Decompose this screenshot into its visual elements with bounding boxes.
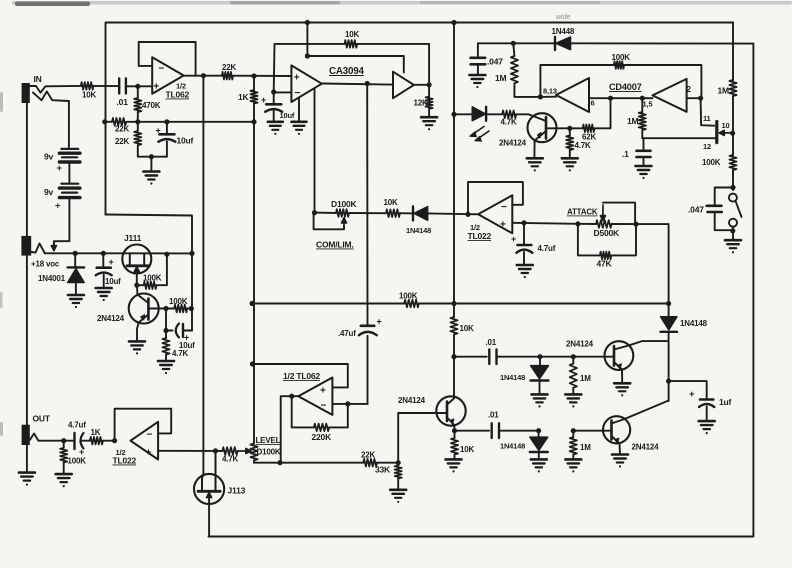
wire: battery output to rail arrow — [54, 198, 70, 246]
svg-text:+: + — [689, 389, 695, 400]
svg-text:−: − — [147, 430, 153, 441]
ground (under 1uf) — [699, 420, 715, 423]
wire: output row to jack — [64, 440, 75, 442]
resistor 22K (to CA3094 +) — [222, 72, 233, 80]
svg-text:10: 10 — [722, 121, 730, 130]
svg-text:LEVEL: LEVEL — [256, 436, 281, 445]
svg-text:1M: 1M — [627, 116, 639, 126]
svg-text:9v: 9v — [44, 187, 54, 197]
svg-text:1M: 1M — [580, 443, 591, 452]
IN jack J1 — [22, 83, 30, 103]
svg-text:+: + — [55, 201, 61, 212]
svg-text:4.7uf: 4.7uf — [68, 421, 86, 430]
node: switch top junction — [730, 185, 735, 190]
node: 1N4148 junction upper — [537, 354, 542, 359]
wire: TL062a output — [184, 75, 222, 77]
resistor 100K (Q3 base to rail node) — [174, 305, 187, 313]
svg-text:+: + — [511, 234, 516, 244]
svg-text:1N4148: 1N4148 — [500, 442, 525, 451]
ground (OUT jack) — [19, 471, 35, 474]
OUT jack J2 — [22, 425, 30, 445]
wire: +18V top rail and left frame bus — [106, 23, 734, 215]
node: J111 gate node — [134, 283, 139, 288]
node: 62K/4.7K junction — [567, 126, 572, 131]
node: junction bias bus — [251, 119, 256, 124]
capacitor .01 (lower clamp) — [455, 430, 490, 432]
resistor 22K (to Q6 base) — [363, 459, 377, 467]
wire: 22K to CA3094 + input — [233, 75, 291, 77]
node: 100K right node x=192 — [189, 306, 194, 311]
resistor 4.7K (J113 to LEVEL wiper) — [222, 447, 237, 455]
svg-text:TL022: TL022 — [113, 456, 137, 466]
node: 100K rail junction — [164, 252, 169, 257]
wire: Q6 collector up to 10K — [453, 357, 455, 380]
wire: attack bus to the right and down — [636, 224, 669, 316]
capacitor .047 (envelope) — [477, 43, 479, 57]
wire: +18V bus x=454 down — [453, 23, 455, 304]
wire: attack bus continues down — [668, 332, 670, 401]
ground (Q3 emitter) — [129, 340, 145, 343]
node: top rail junction at x=454 — [451, 20, 456, 25]
resistor 22K (bias upper) — [112, 118, 126, 126]
resistor 1K (output) — [90, 437, 103, 445]
resistor 10K (upper, on +18 bus) — [450, 317, 457, 335]
resistor 12K (buffer output load) — [426, 97, 433, 109]
wire: U3a input stub (pin 6) — [589, 97, 611, 99]
resistor 100K (output pulldown) — [60, 448, 67, 463]
node: 10uf left junction — [163, 328, 168, 333]
resistor 4.7K (Q3 base to ground) — [162, 338, 169, 355]
svg-text:.047: .047 — [688, 205, 704, 215]
resistor 470K — [134, 98, 141, 112]
wire: row to Q7 base — [573, 430, 603, 432]
svg-text:1N4001: 1N4001 — [38, 274, 66, 283]
node: attack bus junction — [666, 301, 671, 306]
node: inverter U3a output junction — [538, 94, 543, 99]
node: D100K left terminal — [312, 210, 317, 215]
node: reference junction on bias bus — [250, 361, 255, 366]
svg-text:1M: 1M — [580, 374, 591, 383]
wire: LED row from +18 bus — [454, 113, 472, 115]
svg-text:11: 11 — [703, 114, 711, 123]
capacitor .047 (switch) — [715, 188, 733, 206]
svg-text:8,13: 8,13 — [543, 87, 557, 96]
wire: COM/LIM line from pin bus to TL022a — [315, 212, 337, 214]
svg-text:−: − — [158, 64, 164, 75]
resistor 33K — [395, 466, 402, 479]
node: Q6 emitter node — [452, 428, 457, 433]
svg-text:1K: 1K — [238, 92, 250, 102]
svg-text:OUT: OUT — [33, 414, 51, 424]
node: U3b input node — [698, 96, 703, 101]
wire: feedback 10K loop — [274, 44, 345, 92]
resistor 10K (CA3094 feedback) — [345, 40, 358, 48]
svg-text:4.7uf: 4.7uf — [538, 244, 556, 253]
battery B2 9v — [61, 183, 78, 185]
resistor 100K (J111 gate to rail) — [144, 281, 157, 289]
node: 10uf rail junction — [101, 251, 106, 256]
wire: TL022b output to 1K — [103, 440, 115, 442]
switch SW1 (squelch) — [729, 194, 737, 202]
resistor 10K (input) — [81, 82, 94, 90]
wire: D100K wiper loop — [314, 213, 344, 230]
svg-text:1,5: 1,5 — [643, 100, 653, 109]
wire: CA3094 underside pin bus x=314.5 down to COM/LIM pot — [314, 89, 316, 213]
wire: Q1 collector row — [546, 127, 583, 129]
node: 1M junction lower — [571, 428, 576, 433]
wire: J111 gate down — [136, 273, 138, 286]
ground (under power 10uf) — [96, 287, 112, 290]
node: .01 row junction — [451, 354, 456, 359]
resistor 100K (long bias line) — [252, 303, 404, 305]
DC jack +18VDC — [21, 236, 31, 256]
wire: TL022b feedback loop — [115, 409, 172, 441]
svg-text:TL062: TL062 — [166, 90, 190, 100]
transistor Q5 CD4007 FET switch (pins 10,11,12) — [701, 98, 715, 126]
diode 1N4148 (upper clamp) — [531, 366, 549, 379]
wire: between batteries — [68, 162, 70, 183]
svg-text:.01: .01 — [488, 411, 499, 420]
node: switch bottom junction — [730, 228, 735, 233]
svg-text:D100K: D100K — [331, 199, 358, 209]
node: rail end junction x=192 — [189, 251, 194, 256]
wire: IN jack ring contact to battery — [33, 92, 69, 149]
ground (under upper 1N4148) — [532, 393, 548, 396]
potentiometer D500K ATTACK — [596, 220, 612, 228]
svg-text:+: + — [153, 82, 159, 93]
svg-text:TL022: TL022 — [468, 231, 492, 241]
node: ground junction of bias network — [149, 154, 154, 159]
transistor Q4 2N4124 (upper clamp) — [605, 341, 634, 370]
node: left end junction bias bus — [250, 301, 255, 306]
wire: OUT jack tip contact — [30, 434, 64, 441]
transistor Q7 2N4124 (lower clamp) — [603, 416, 630, 443]
potentiometer D100K LEVEL — [253, 304, 255, 444]
resistor 1M (lower clamp) — [570, 437, 577, 454]
svg-text:+: + — [57, 163, 63, 174]
node: 1K top junction — [251, 73, 256, 78]
ground (CA3094 pin) — [292, 121, 307, 124]
svg-text:.47uf: .47uf — [338, 329, 356, 338]
wire: diode to right frame corner — [571, 42, 754, 44]
node: junction 10uf branch — [164, 119, 169, 124]
wire: signal bus x=203 down to J113 — [202, 76, 204, 476]
svg-text:220K: 220K — [312, 432, 333, 442]
svg-text:100K: 100K — [612, 53, 631, 62]
node: J113/4.7K junction — [213, 448, 218, 453]
node: top rail junction at x=307 — [305, 20, 310, 25]
node: D500K right terminal — [633, 222, 638, 227]
capacitor .47uf — [361, 324, 375, 327]
transistor Q6 2N4124 (clamp driver) — [436, 396, 465, 425]
svg-text:CA3094: CA3094 — [329, 66, 364, 77]
svg-text:.01: .01 — [117, 97, 129, 107]
svg-text:1M: 1M — [718, 86, 730, 96]
ground (under lower 1N4148) — [531, 458, 547, 461]
svg-text:1N448: 1N448 — [552, 27, 575, 36]
svg-text:1uf: 1uf — [719, 397, 732, 407]
node: 1M branch junction — [511, 41, 516, 46]
node: drain to 1M bus — [730, 131, 735, 136]
svg-text:CD4007: CD4007 — [609, 82, 642, 92]
svg-text:2N4124: 2N4124 — [499, 139, 527, 148]
node: 1N4148 junction lower — [536, 428, 541, 433]
resistor 4.7K (Q1 collector load) — [566, 136, 573, 151]
wire: inter-inverter wire — [611, 97, 653, 99]
wire: IN jack sleeve bus down left side — [26, 103, 28, 425]
wire: signal bus x=367 down through .47uf — [366, 84, 368, 326]
op-amp U4a 1/2 TL022 (detector) — [478, 195, 512, 233]
node: 33K/base junction — [396, 460, 401, 465]
LED light arrows — [471, 127, 484, 136]
svg-text:IN: IN — [34, 74, 42, 84]
wire: TL022a feedback loop — [468, 182, 523, 214]
wire: J113 gate to bottom rail — [208, 500, 210, 537]
svg-text:+: + — [146, 448, 152, 459]
wire: right frame down and bottom rail — [209, 44, 754, 537]
svg-text:10uf: 10uf — [105, 277, 121, 286]
potentiometer D100K COM/LIM — [336, 209, 349, 217]
diode 1N448 (envelope) — [554, 37, 556, 50]
wire: TL062a feedback loop — [139, 42, 196, 76]
wire: Q6 base vertical — [398, 413, 436, 463]
node: TL022a output node — [465, 212, 470, 217]
wire: LEVEL pot bottom row — [254, 462, 363, 464]
svg-text:+: + — [261, 95, 266, 105]
svg-text:4.7K: 4.7K — [222, 455, 239, 464]
svg-text:22K: 22K — [222, 63, 236, 72]
svg-text:D100K: D100K — [257, 448, 281, 457]
svg-text:10K: 10K — [82, 91, 96, 100]
wire: .01 to TL062 + input — [126, 85, 152, 87]
svg-text:ATTACK: ATTACK — [567, 208, 598, 217]
svg-text:+18 voc: +18 voc — [31, 260, 60, 269]
svg-text:+: + — [109, 257, 114, 267]
wire: 1M to inverter output node — [514, 83, 540, 97]
resistor 10K (Q6 emitter) — [451, 438, 458, 455]
node: 1M junction upper — [571, 354, 576, 359]
svg-text:12: 12 — [703, 142, 711, 151]
ground (under .1) — [636, 165, 652, 168]
svg-text:10uf: 10uf — [280, 111, 295, 120]
op-amp U2b buffer triangle — [393, 72, 414, 99]
capacitor 1uf — [700, 398, 713, 401]
ground (Q1 emitter) — [527, 157, 543, 160]
svg-text:10K: 10K — [384, 198, 398, 207]
node: 1M branch at inverter 2 tip — [640, 96, 645, 101]
svg-text:100K: 100K — [702, 158, 721, 167]
svg-text:−: − — [501, 202, 507, 213]
node: 4.7uf junction — [521, 220, 526, 225]
wire: IN jack tip contact — [30, 86, 81, 93]
resistor 4.7K (LED to Q1 base) — [502, 111, 516, 119]
svg-text:22K: 22K — [361, 451, 375, 460]
svg-text:470K: 470K — [142, 101, 161, 110]
transistor J113 JFET Q8 — [194, 474, 224, 504]
wire: CA3094 - input stub — [274, 91, 292, 93]
transistor Q3 2N4124 (gate driver) — [129, 294, 159, 324]
resistor 62K — [583, 125, 595, 133]
node: output node — [112, 438, 117, 443]
diode 1N4148 (lower clamp) — [530, 437, 548, 450]
wire: DC jack prong to rail — [31, 244, 45, 254]
svg-text:J113: J113 — [228, 486, 246, 496]
wire: TL062b output — [281, 396, 299, 463]
wire: +18V horizontal rail above J111 — [45, 252, 193, 254]
op-amp U1a 1/2 TL062 (input buffer) — [152, 57, 184, 93]
battery B1 9v — [61, 148, 78, 150]
svg-text:10K: 10K — [460, 324, 474, 333]
capacitor .01 (input) — [118, 79, 120, 94]
resistor 47K (across attack pot) — [578, 224, 600, 256]
svg-text:100K: 100K — [68, 457, 87, 466]
resistor 100K (to switch) — [729, 155, 736, 170]
wire: inverter U3a output to tip — [540, 96, 556, 98]
ground (under 4.7K) — [562, 157, 578, 160]
svg-text:+: + — [156, 126, 161, 136]
svg-text:1N4148: 1N4148 — [406, 226, 431, 235]
svg-text:22K: 22K — [115, 137, 129, 146]
resistor 1K — [250, 90, 257, 104]
diode 1N4148 (attack bus) — [661, 317, 678, 330]
ground (buffer load) — [421, 116, 437, 119]
wire: D500K wiper loop — [603, 203, 635, 225]
ground (under 33K) — [390, 488, 406, 491]
svg-text:12K: 12K — [414, 99, 428, 108]
wire: OUT jack sleeve to ground — [26, 445, 28, 473]
svg-text:100K: 100K — [169, 297, 188, 306]
capacitor 10uf (bias) — [166, 122, 168, 134]
svg-text:33K: 33K — [375, 465, 391, 475]
node: ATTACK pot left terminal — [575, 221, 580, 226]
svg-text:.01: .01 — [486, 338, 497, 347]
wire: left frame jog to +18V rail — [106, 215, 193, 254]
resistor 100K (CD4007 feedback) — [614, 61, 624, 69]
wire: TL062b + reference line — [253, 364, 348, 387]
wire: bias row y=122 — [104, 121, 112, 123]
wire: 62K up to inverter input — [595, 98, 611, 128]
capacitor 4.7uf (attack) — [523, 223, 525, 245]
diode 1N4148 (detector) — [412, 207, 414, 221]
wire: TL062b - input from .47uf — [332, 403, 367, 405]
svg-text:1N4148: 1N4148 — [500, 373, 525, 382]
wire: FET drain (pin 10) with arrow — [719, 132, 732, 134]
svg-text:10K: 10K — [460, 445, 474, 454]
wire: 10K to .01 cap — [94, 85, 120, 87]
node: TL062a output junction (bus x=203) — [201, 73, 206, 78]
transistor Q1 2N4124 (LED driver) — [528, 113, 557, 142]
ground (Q7 emitter) — [612, 453, 628, 456]
op-amp U1b 1/2 TL062 (gain stage) — [298, 378, 332, 415]
svg-text:+: + — [500, 220, 506, 231]
svg-text:47K: 47K — [597, 259, 613, 269]
ground (under .047) — [469, 74, 485, 77]
resistor 22K (bias lower) — [134, 131, 141, 145]
capacitor 10uf (power filter) — [102, 253, 104, 267]
node: - input junction — [345, 401, 350, 406]
capacitor .01 (upper clamp) — [454, 356, 487, 358]
LED D2 — [472, 107, 485, 121]
capacitor 4.7uf (output) — [73, 433, 75, 449]
svg-text:10K: 10K — [345, 30, 359, 39]
svg-text:J111: J111 — [124, 233, 142, 243]
node: TL062b output junction — [277, 460, 282, 465]
svg-text:1N4148: 1N4148 — [680, 319, 708, 328]
ground (under 4.7K) — [158, 360, 174, 363]
ground (under switch) — [732, 227, 734, 241]
wire: buffer output — [414, 84, 429, 86]
svg-text:.047: .047 — [487, 57, 503, 67]
ground (under Q6 emitter 10K) — [446, 458, 462, 461]
ground (under output 100K) — [56, 473, 72, 476]
resistor 220K (TL062b feedback) — [329, 404, 348, 428]
svg-text:100K: 100K — [399, 292, 418, 301]
svg-text:1K: 1K — [91, 428, 101, 437]
svg-text:100K: 100K — [143, 274, 162, 283]
svg-text:10uf: 10uf — [177, 136, 194, 146]
wire: 100K feedback loop — [540, 65, 614, 97]
svg-text:2: 2 — [687, 85, 692, 94]
transistor J111 JFET Q2 — [122, 245, 151, 274]
wire: LEVEL wiper arrow — [238, 450, 251, 452]
svg-text:6: 6 — [591, 99, 595, 108]
wire: CA3094 output — [322, 84, 393, 85]
diode 1N4001 (polarity protect) — [74, 253, 76, 267]
node: CA3094 output junction (bus x=367) — [365, 81, 370, 86]
node: +18 bus junction — [451, 301, 456, 306]
wire: CA3094 ground pin stub — [298, 98, 300, 122]
svg-text:22K: 22K — [115, 125, 129, 134]
wire: pin 12 row — [642, 137, 715, 139]
svg-text:+: + — [377, 317, 382, 327]
wire: vertical x=192 rail to 100K node — [191, 253, 193, 308]
op-amp U2 CA3094 — [291, 65, 321, 102]
wire: envelope line y=43 to right frame — [478, 42, 555, 44]
svg-text:+: + — [294, 73, 300, 84]
ground (under upper 1M) — [565, 393, 581, 396]
svg-text:9v: 9v — [44, 152, 54, 162]
svg-text:−: − — [321, 401, 327, 412]
node: output/feedback junction — [289, 394, 294, 399]
resistor 1M (on right bus x=733) — [732, 23, 734, 81]
ground (under 1N4001) — [68, 294, 84, 297]
op-amp U4b 1/2 TL022 (output) — [131, 422, 159, 460]
wire: TL022a + input row (attack) — [512, 223, 578, 224]
wire: bias bus x=254 down — [253, 104, 255, 304]
ground (Q4 emitter) — [614, 382, 630, 385]
node: buffer output junction — [427, 82, 432, 87]
ground (bias network) — [150, 157, 152, 172]
svg-text:4.7K: 4.7K — [575, 141, 592, 150]
capacitor 10uf (Q3 base) — [165, 309, 167, 331]
svg-text:D500K: D500K — [594, 228, 621, 238]
svg-text:2N4124: 2N4124 — [97, 314, 125, 323]
node: LED row junction on bus x=454 — [451, 112, 456, 117]
wire: 10K to diode to TL022a — [400, 212, 413, 214]
node: Q3 base node — [163, 306, 168, 311]
wire: 1uf branch — [669, 381, 707, 398]
node: junction frame/22K — [102, 119, 107, 124]
svg-text:+: + — [79, 447, 84, 457]
capacitor 10uf (CA3094 - input decouple) — [271, 89, 276, 94]
capacitor .1 — [643, 138, 645, 150]
node: 62K junction on inverter input wire — [608, 96, 613, 101]
resistor 1M (envelope bleed) — [511, 56, 518, 83]
ground (under lower 1M) — [565, 458, 581, 461]
ground (under 10uf decouple) — [268, 121, 283, 124]
svg-text:COM/LIM.: COM/LIM. — [316, 240, 354, 250]
wire: CA3094 pin bus x=307 from top rail — [306, 23, 308, 57]
